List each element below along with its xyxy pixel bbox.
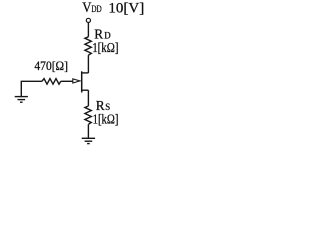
- svg-text:V: V: [82, 0, 92, 16]
- svg-text:R: R: [96, 98, 105, 113]
- svg-text:R: R: [94, 27, 103, 42]
- svg-text:1[kΩ]: 1[kΩ]: [92, 41, 118, 56]
- svg-text:470[Ω]: 470[Ω]: [34, 58, 68, 73]
- svg-text:10[V]: 10[V]: [108, 0, 144, 16]
- svg-text:DD: DD: [91, 5, 101, 15]
- svg-text:S: S: [105, 102, 110, 112]
- svg-text:1[kΩ]: 1[kΩ]: [93, 112, 119, 127]
- svg-text:D: D: [104, 31, 111, 41]
